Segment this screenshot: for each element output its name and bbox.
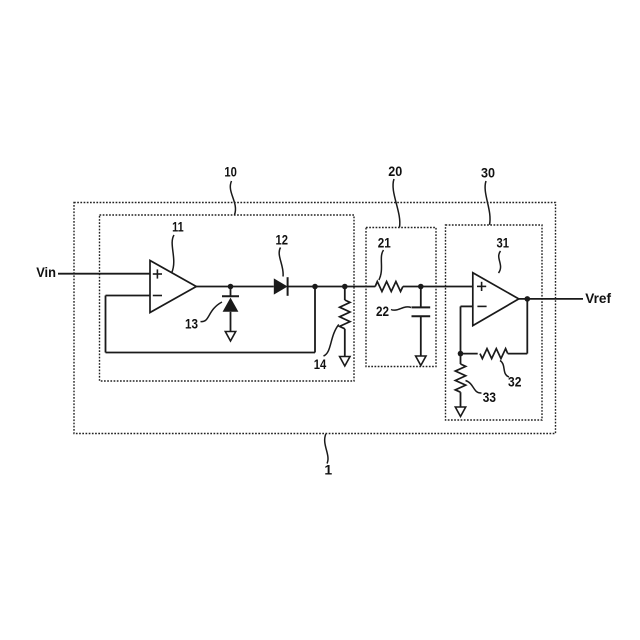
- op-amp 11: [150, 261, 196, 313]
- diode 13: [222, 296, 239, 312]
- svg-text:13: 13: [185, 316, 198, 332]
- leader 11: [172, 235, 174, 273]
- wire feedback 31 to resistor 32: [508, 353, 528, 355]
- leader 22: [391, 307, 411, 310]
- wire feedback bottom: [106, 352, 316, 354]
- capacitor 22: [412, 307, 431, 316]
- leader 33: [466, 381, 482, 394]
- wire resistor 33 to ground: [460, 392, 462, 407]
- resistor 32: [480, 349, 508, 359]
- wire node to resistor 33: [460, 354, 462, 364]
- node output: [525, 296, 531, 302]
- wire diode 13 to ground: [230, 312, 232, 332]
- wire op-amp 11 output: [196, 286, 274, 288]
- node at diode 13 branch: [228, 284, 234, 290]
- wire op-amp 31 inverting input: [461, 305, 473, 307]
- svg-text:12: 12: [276, 232, 289, 248]
- box 20 (dashed): [366, 228, 436, 367]
- ground (below resistor 14): [340, 357, 350, 367]
- leader 31: [499, 251, 501, 273]
- leader 30: [485, 181, 490, 225]
- svg-text:20: 20: [388, 163, 402, 179]
- leader 12: [279, 248, 283, 277]
- leader 32: [500, 361, 509, 378]
- svg-text:14: 14: [314, 356, 327, 372]
- wire feedback up: [105, 296, 107, 353]
- wire resistor 21 to op-amp 31: [403, 286, 473, 288]
- wire diode 12 to resistor 21: [288, 286, 376, 288]
- node feedback takeoff: [312, 284, 318, 290]
- wire feedback down: [314, 287, 316, 353]
- svg-text:22: 22: [376, 303, 389, 319]
- wire resistor 14 to ground: [344, 329, 346, 357]
- ground (below capacitor 22): [416, 356, 426, 366]
- wire down to resistor 14: [344, 287, 346, 301]
- op-amp 31: [473, 273, 519, 326]
- node resistor 33: [458, 351, 464, 357]
- svg-text:32: 32: [508, 374, 522, 390]
- ground (below resistor 33): [455, 407, 465, 417]
- wire to op-amp 11 inverting input: [106, 295, 151, 297]
- leader 21: [379, 250, 384, 280]
- resistor 33: [455, 364, 465, 392]
- box 10 (dashed): [100, 215, 355, 381]
- svg-text:1: 1: [324, 462, 332, 478]
- wire op-amp 31 output to Vref: [519, 298, 583, 300]
- diode 12: [274, 277, 288, 296]
- wire feedback 31 down: [526, 299, 528, 354]
- resistor 14: [340, 300, 350, 329]
- leader 20: [393, 179, 400, 227]
- svg-text:21: 21: [378, 235, 391, 251]
- svg-text:Vref: Vref: [585, 290, 611, 306]
- leader 13: [201, 302, 223, 322]
- wire inverting input down: [460, 306, 462, 353]
- svg-text:10: 10: [224, 163, 237, 179]
- svg-text:11: 11: [172, 218, 184, 234]
- wire resistor 32 to node: [461, 353, 478, 355]
- leader 10: [230, 181, 235, 215]
- wire down to diode 13: [230, 287, 232, 297]
- node resistor 14 takeoff: [342, 284, 348, 290]
- wire capacitor 22 to ground: [420, 316, 422, 356]
- leader 14: [324, 325, 339, 357]
- resistor 21: [375, 282, 403, 292]
- svg-text:Vin: Vin: [36, 264, 56, 280]
- svg-text:31: 31: [496, 235, 509, 251]
- svg-text:30: 30: [481, 165, 495, 181]
- ground (below diode 13): [225, 332, 235, 342]
- wire down to capacitor 22: [420, 287, 422, 307]
- leader 1: [325, 434, 328, 464]
- box 30 (dashed): [446, 225, 543, 420]
- svg-text:33: 33: [483, 389, 496, 405]
- wire Vin input: [58, 273, 150, 275]
- node capacitor 22 takeoff: [418, 284, 424, 290]
- box 1 (outer dashed): [74, 203, 556, 434]
